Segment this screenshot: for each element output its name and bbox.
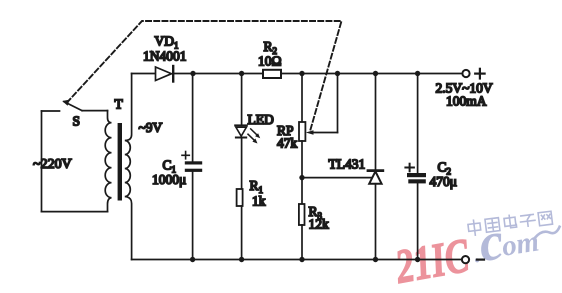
capacitor C1 1000u [185, 74, 202, 260]
capacitor C2 470u [407, 74, 426, 260]
node bottom TL431 [373, 257, 378, 262]
transformer T primary winding [105, 111, 111, 212]
svg-text:47k: 47k [277, 136, 298, 151]
svg-text:100mA: 100mA [446, 94, 487, 109]
node top LED [239, 71, 244, 76]
switch S [62, 100, 82, 111]
node top wiper riser [335, 71, 340, 76]
svg-text:~9V: ~9V [139, 120, 163, 135]
node bottom C1 [190, 257, 195, 262]
wire AC loop bottom [42, 211, 108, 213]
svg-text:1k: 1k [252, 194, 266, 209]
svg-text:T: T [115, 97, 124, 112]
node top TL431 [373, 71, 378, 76]
wire bottom rail [132, 259, 462, 261]
svg-text:10Ω: 10Ω [258, 54, 282, 69]
node bottom R1 [239, 257, 244, 262]
svg-text:S: S [73, 114, 81, 129]
wire R3 to bottom rail [301, 225, 303, 260]
watermark chinese text [467, 210, 552, 236]
output terminal minus [462, 256, 484, 263]
wire REF to TL431 [302, 177, 374, 179]
C2 plus sign [405, 164, 414, 172]
RP wiper arrow [306, 74, 338, 135]
wire LED to R1 [241, 139, 243, 190]
resistor R1 body [237, 189, 243, 206]
svg-text:~220V: ~220V [33, 157, 72, 172]
resistor R3 body [299, 204, 305, 225]
wire RP branch top [301, 74, 303, 123]
svg-text:R1: R1 [250, 178, 264, 195]
node REF junction [299, 175, 304, 180]
wire switch to transformer primary [82, 110, 108, 112]
wire top rail diode to R2 [174, 73, 263, 75]
output terminal plus [462, 69, 484, 79]
C1 plus sign [182, 152, 189, 159]
diode VD1 1N4001 [156, 66, 174, 82]
svg-text:om: om [500, 225, 542, 262]
wire R1 to bottom rail [241, 206, 243, 260]
watermark .com script [468, 201, 562, 274]
LED [235, 125, 247, 137]
wire AC loop top to switch contact [42, 110, 60, 112]
wire AC loop left vertical [41, 111, 43, 212]
wire LED branch top [241, 74, 243, 126]
node top C2 [415, 71, 420, 76]
watermark 21IC logo [391, 229, 474, 293]
wire TL431 to bottom rail [375, 184, 377, 260]
transformer T core [118, 123, 122, 201]
svg-text:1000μ: 1000μ [152, 172, 186, 187]
mechanical link dashed line [67, 21, 342, 130]
wire RP to R3 [301, 141, 303, 204]
node top C1 [190, 71, 195, 76]
TL431 [368, 171, 383, 184]
svg-text:LED: LED [248, 112, 274, 127]
potentiometer RP body [299, 122, 305, 141]
svg-text:12k: 12k [309, 217, 330, 232]
svg-text:1N4001: 1N4001 [143, 49, 187, 64]
transformer T secondary winding [125, 74, 132, 260]
node bottom C2 [415, 257, 420, 262]
wire top rail left segment [132, 73, 156, 75]
LED emission arrows [248, 129, 260, 144]
resistor R2 body [263, 70, 281, 78]
node bottom R3 [299, 257, 304, 262]
wire TL431 branch top [375, 74, 377, 171]
svg-text:470μ: 470μ [430, 174, 458, 189]
svg-text:TL431: TL431 [329, 157, 366, 172]
node top RP [299, 71, 304, 76]
wire top rail R2 to + terminal [281, 73, 462, 75]
